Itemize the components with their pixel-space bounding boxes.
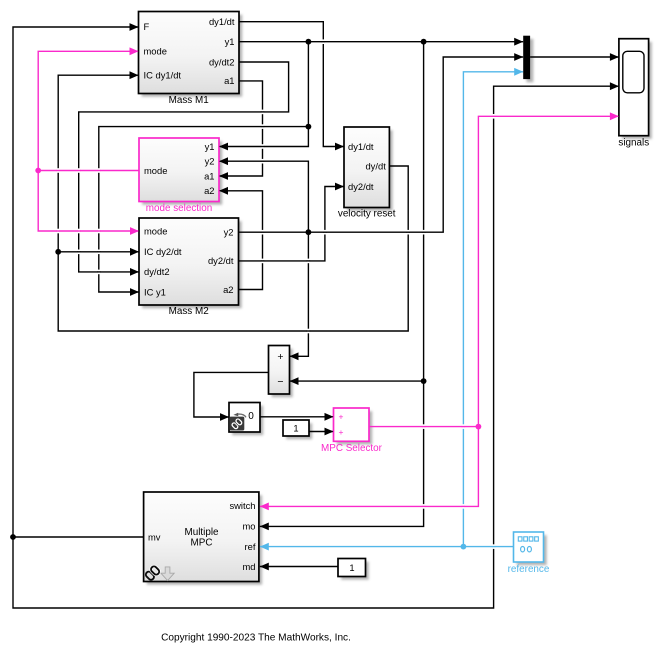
wire crossing gaps — [57, 39, 496, 548]
svg-text:signals: signals — [618, 138, 649, 149]
arrowhead: Mux input 1 — [514, 38, 523, 46]
arrowhead: Scope input 1 — [610, 53, 619, 61]
svg-text:+: + — [339, 412, 344, 422]
svg-text:a1: a1 — [204, 170, 214, 181]
wire: MPC Selector output to Scope input 3 — [369, 116, 619, 426]
wire: Constant 1 to MPC Selector input 2 — [309, 431, 334, 433]
arrowhead: Multiple MPC ref input — [260, 543, 269, 551]
svg-text:a2: a2 — [204, 185, 214, 196]
wire: mode output to Mass M1 mode input — [38, 51, 139, 170]
svg-text:−: − — [277, 376, 283, 388]
subsystem block Mass M2 — [139, 218, 239, 317]
arrowhead: mode selection a2 input — [219, 187, 228, 195]
junction dot: reference signal split — [461, 544, 467, 550]
arrowhead: mode selection a1 input — [219, 172, 228, 180]
MPC Selector block — [321, 408, 383, 454]
arrowhead: MPC Selector input 1 — [325, 413, 334, 421]
svg-text:reference: reference — [508, 564, 550, 575]
svg-text:+: + — [277, 351, 283, 363]
arrowhead: memory block input — [220, 413, 229, 421]
wire: Sum output to Memory block — [194, 372, 269, 417]
arrowhead: velocity reset dy2/dt input — [335, 183, 344, 191]
arrowhead: Mass M2 IC dy2/dt input — [130, 248, 139, 256]
junction dot: y1 split C — [306, 124, 312, 130]
arrowhead: Mass M2 IC y1 input — [130, 288, 139, 296]
wire: Memory block to MPC Selector input 1 — [260, 416, 334, 418]
svg-text:IC y1: IC y1 — [144, 286, 166, 297]
svg-text:mode: mode — [144, 165, 167, 176]
junction dot: IC signal split — [55, 249, 61, 255]
wire: y1 branch to Sum minus input — [290, 380, 424, 382]
sum block (flipped, + -) — [269, 346, 290, 395]
svg-text:+: + — [339, 427, 344, 437]
memory block with value 0 and library link badge — [229, 403, 260, 433]
junction dot: mv feedback split — [10, 534, 16, 540]
svg-text:mode selection: mode selection — [146, 203, 212, 214]
wire: Mass M2 dy2/dt to velocity reset dy2/dt — [239, 187, 345, 261]
svg-text:F: F — [144, 21, 150, 32]
svg-text:y2: y2 — [205, 156, 215, 167]
svg-text:switch: switch — [229, 500, 255, 511]
svg-text:mo: mo — [242, 521, 255, 532]
arrowhead: Multiple MPC switch input — [260, 503, 269, 511]
svg-text:mode: mode — [144, 46, 167, 57]
mux block — [523, 36, 530, 79]
svg-text:y2: y2 — [224, 227, 234, 238]
wire: mv feedback to Mass M1 F input — [13, 27, 144, 537]
svg-text:0: 0 — [248, 411, 254, 422]
arrowhead: mode selection y2 input — [219, 157, 228, 165]
svg-text:dy2/dt: dy2/dt — [208, 255, 234, 266]
subsystem block mode selection — [139, 138, 219, 214]
wire: Mass M1 dy/dt2 to Mass M2 dy/dt2 input — [79, 62, 289, 272]
svg-text:md: md — [242, 561, 255, 572]
wire: Mux output to Scope input 1 — [530, 56, 619, 58]
arrowhead: Scope input 3 — [610, 112, 619, 120]
arrowhead: Mass M2 dy/dt2 input — [130, 268, 139, 276]
junction dot: MPC Selector output split — [476, 424, 482, 430]
svg-text:dy2/dt: dy2/dt — [348, 181, 374, 192]
wire: Mass M1 dy1/dt to velocity reset dy1/dt — [239, 22, 344, 147]
junction dot: y1 to sum minus split — [421, 378, 427, 384]
arrowhead: Mux input 3 — [514, 68, 523, 76]
wire: y2 branch up to mode selection y2 input — [219, 161, 308, 232]
wire: y1 branch to Mass M2 IC y1 input — [99, 127, 309, 292]
arrowhead: Mass M2 mode input — [130, 227, 139, 235]
arrowhead: Scope input 2 — [610, 82, 619, 90]
arrowhead: Mass M1 mode input — [130, 47, 139, 55]
wire: y1 branch down to Multiple MPC mo input — [260, 42, 424, 527]
subsystem block Mass M1 — [139, 12, 240, 106]
arrowhead: MPC Selector input 2 — [325, 428, 334, 436]
wire: IC branch to Mass M2 IC dy2/dt input — [58, 251, 139, 253]
arrowhead: Mux input 2 — [514, 53, 523, 61]
junction dot: y1 split B — [421, 39, 427, 45]
wire: mv feedback to Scope input 2 — [13, 86, 619, 608]
svg-text:dy/dt2: dy/dt2 — [144, 266, 170, 277]
Multiple MPC controller block — [144, 492, 259, 582]
svg-text:1: 1 — [349, 562, 354, 573]
wire: velocity reset dy/dt to Mass M1 IC dy1/dt — [58, 75, 408, 331]
svg-text:Mass M1: Mass M1 — [169, 95, 210, 106]
svg-text:Copyright 1990-2023 The MathWo: Copyright 1990-2023 The MathWorks, Inc. — [161, 632, 351, 643]
wire: Mass M1 a1 to mode selection a1 input — [219, 81, 263, 176]
svg-text:Multiple: Multiple — [184, 527, 219, 538]
gray down-arrow icon — [161, 567, 174, 581]
wire: reference to Multiple MPC ref input — [260, 546, 514, 548]
svg-text:MPC Selector: MPC Selector — [321, 443, 383, 454]
subsystem block velocity reset — [338, 127, 396, 220]
wire: reference branch up to Mux input 3 — [463, 72, 523, 547]
svg-text:ref: ref — [245, 541, 256, 552]
svg-text:dy/dt: dy/dt — [365, 160, 386, 171]
constant block 1 (feeds md) — [338, 559, 366, 577]
wire: y1 branch to mode selection y1 input — [219, 42, 308, 147]
arrowhead: Mass M1 IC dy1/dt input — [130, 71, 139, 79]
wire: mode branch to Mass M2 mode input — [38, 171, 139, 232]
scope block signals — [618, 39, 649, 149]
svg-text:y1: y1 — [225, 36, 235, 47]
svg-text:dy1/dt: dy1/dt — [209, 16, 235, 27]
constant block 1 (feeds MPC Selector) — [283, 420, 309, 436]
svg-text:1: 1 — [293, 423, 298, 434]
wire: MPC Selector branch to Multiple MPC switch input — [260, 427, 479, 507]
wire: Mass M2 y2 to Mux input 2 — [239, 57, 524, 232]
arrowhead: mode selection y1 input — [219, 143, 228, 151]
block drop shadows — [142, 15, 652, 585]
arrowhead: velocity reset dy1/dt input — [335, 143, 344, 151]
wire: Constant 1 to Multiple MPC md input — [260, 566, 338, 568]
svg-text:velocity reset: velocity reset — [338, 209, 396, 220]
arrowhead: Sum minus input — [290, 377, 299, 385]
wire: Mass M1 y1 to Mux input 1 — [239, 41, 523, 43]
svg-text:IC dy1/dt: IC dy1/dt — [144, 70, 182, 81]
wire: y2 branch down to Sum plus input — [290, 232, 309, 356]
svg-text:MPC: MPC — [191, 537, 213, 548]
svg-text:a1: a1 — [224, 75, 234, 86]
wire: Mass M2 a2 to mode selection a2 input — [219, 191, 263, 290]
junction dot: y1 split A — [306, 39, 312, 45]
arrowhead: Multiple MPC mo input — [260, 523, 269, 531]
junction dot: mode signal split — [35, 168, 41, 174]
library link chain icon — [145, 565, 161, 581]
svg-text:IC dy2/dt: IC dy2/dt — [144, 246, 182, 257]
arrowhead: Sum plus input — [290, 352, 299, 360]
reference signal editor block — [508, 532, 550, 575]
svg-text:mv: mv — [148, 531, 161, 542]
svg-text:dy1/dt: dy1/dt — [348, 141, 374, 152]
svg-text:dy/dt2: dy/dt2 — [209, 56, 235, 67]
arrowhead: Multiple MPC md input — [260, 563, 269, 571]
svg-text:y1: y1 — [205, 141, 215, 152]
svg-text:mode: mode — [144, 225, 167, 236]
svg-text:Mass M2: Mass M2 — [169, 306, 209, 317]
arrowhead: Mass M1 F input — [130, 23, 139, 31]
junction dot: y2 split — [306, 229, 312, 235]
svg-text:a2: a2 — [223, 284, 233, 295]
